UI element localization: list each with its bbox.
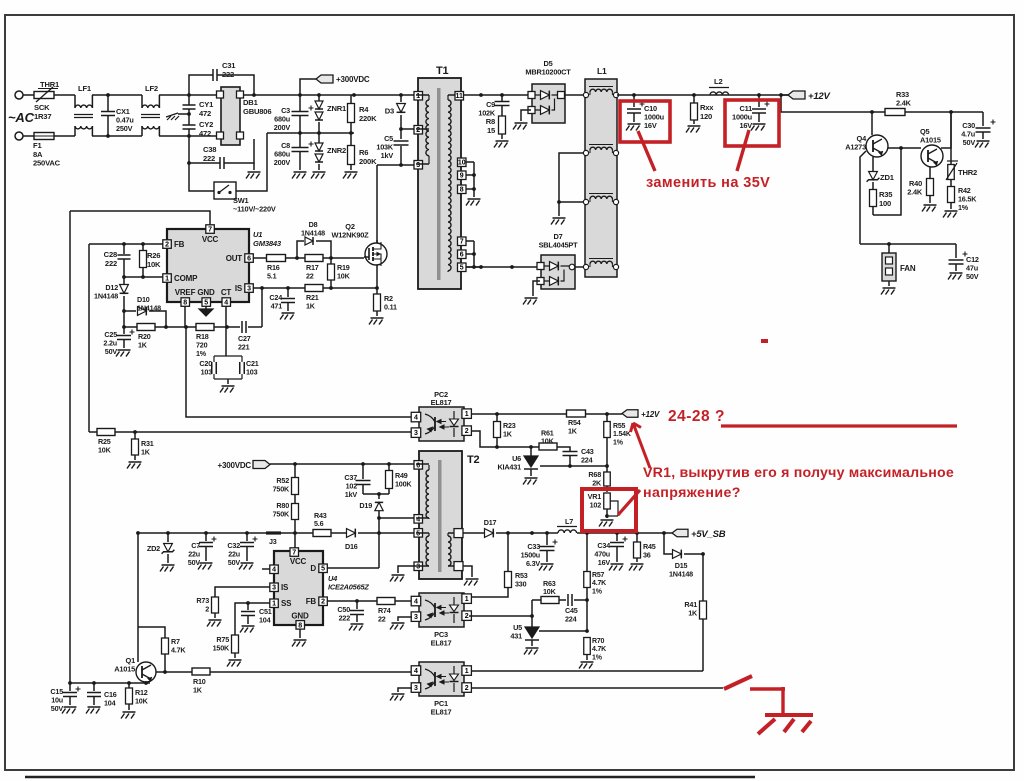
svg-text:1N4148: 1N4148 [137, 303, 161, 312]
svg-text:ZD2: ZD2 [147, 544, 160, 553]
red ground hatch [802, 721, 811, 732]
svg-text:24-28 ?: 24-28 ? [668, 408, 725, 425]
svg-text:16V: 16V [598, 558, 611, 567]
svg-text:1%: 1% [613, 439, 624, 446]
svg-text:4.7K: 4.7K [592, 580, 606, 587]
diode D15 1N4148 [664, 533, 705, 578]
wire [905, 110, 983, 114]
U1 pin 4 CT [221, 288, 232, 306]
wire [92, 134, 142, 138]
capacitor C34 470u 16V [594, 533, 627, 571]
svg-text:D: D [310, 564, 316, 573]
ground [343, 172, 358, 179]
svg-text:ZNR1: ZNR1 [327, 104, 347, 113]
wire [286, 256, 307, 260]
svg-text:1: 1 [165, 275, 169, 282]
ground [292, 172, 307, 179]
AC input terminal bottom [15, 132, 34, 140]
svg-text:3: 3 [247, 285, 251, 292]
svg-text:2: 2 [165, 241, 169, 248]
D drain wire [327, 567, 379, 569]
resistor R53 330 [469, 533, 528, 597]
diode D12 1N4148 [94, 277, 128, 327]
svg-text:5: 5 [204, 299, 208, 306]
L1 winding 4 [583, 259, 618, 270]
svg-text:THR2: THR2 [958, 168, 977, 177]
svg-text:1K: 1K [138, 340, 148, 349]
svg-text:2: 2 [205, 604, 209, 613]
capacitor C9 102K [478, 95, 509, 118]
svg-text:10K: 10K [135, 696, 149, 705]
svg-text:заменить на 35V: заменить на 35V [646, 175, 770, 191]
svg-text:SS: SS [281, 599, 292, 608]
red leader line [737, 130, 749, 171]
svg-text:200V: 200V [274, 158, 291, 167]
svg-text:103: 103 [201, 367, 213, 376]
svg-text:1%: 1% [592, 654, 603, 661]
svg-text:4: 4 [272, 567, 276, 574]
svg-text:8A: 8A [33, 150, 43, 159]
svg-text:7: 7 [460, 239, 464, 246]
svg-text:222: 222 [339, 613, 351, 622]
svg-text:1K: 1K [503, 429, 513, 438]
svg-text:1: 1 [465, 668, 469, 675]
svg-text:5.6: 5.6 [314, 519, 324, 528]
svg-text:EL817: EL817 [431, 398, 452, 407]
ground [686, 126, 701, 133]
ground [751, 124, 766, 131]
svg-text:R55: R55 [613, 423, 626, 430]
capacitor C32 22u 50V [227, 533, 257, 570]
wire [540, 464, 607, 468]
dual diode D7 SBL4045PT [537, 232, 578, 289]
varistor ZNR2 [315, 133, 346, 170]
wire [557, 447, 570, 451]
svg-text:~AC: ~AC [8, 110, 35, 125]
+12V flag [781, 91, 831, 102]
trimmer VR1 102 [588, 486, 618, 527]
svg-text:3: 3 [414, 614, 418, 621]
T2 secondary winding [448, 533, 451, 566]
resistor R68 2K [588, 470, 610, 487]
svg-text:10: 10 [458, 160, 466, 167]
U4 pin 2 FB [306, 597, 328, 606]
wire [217, 75, 256, 97]
svg-text:2: 2 [321, 599, 325, 606]
svg-text:L1: L1 [597, 66, 607, 76]
svg-text:R6: R6 [359, 148, 368, 157]
svg-text:4.7K: 4.7K [592, 646, 606, 653]
transistor Q1 A1015 [114, 656, 156, 682]
wire [471, 670, 703, 672]
svg-text:22: 22 [306, 271, 314, 280]
svg-text:1kV: 1kV [381, 151, 394, 160]
svg-text:напряжение?: напряжение? [643, 485, 741, 501]
wire [539, 629, 589, 633]
red box around C10 [620, 101, 670, 142]
svg-text:2.4K: 2.4K [907, 188, 923, 197]
svg-text:A1273: A1273 [845, 143, 866, 152]
diode D17 [463, 518, 558, 537]
svg-text:150K: 150K [213, 643, 230, 652]
svg-text:L7: L7 [565, 517, 573, 526]
svg-text:330: 330 [515, 579, 527, 588]
T2 pin3 ground [390, 566, 416, 582]
T1 pin 9 [458, 171, 475, 180]
svg-text:F1: F1 [33, 141, 42, 150]
wire [377, 163, 416, 167]
T2 pin 3 [414, 562, 429, 571]
svg-text:7: 7 [208, 226, 212, 233]
transistor Q5 A1015 [920, 127, 943, 167]
svg-text:10K: 10K [541, 436, 555, 445]
svg-text:C38: C38 [203, 145, 216, 154]
resistor R40 2.4K [907, 179, 936, 212]
svg-text:T2: T2 [467, 454, 480, 466]
svg-text:1N4148: 1N4148 [94, 291, 118, 300]
svg-text:750K: 750K [273, 509, 290, 518]
capacitor C33 1500u 6.3V [521, 531, 558, 570]
svg-text:A1015: A1015 [920, 136, 941, 145]
svg-text:200V: 200V [274, 123, 291, 132]
ground [311, 172, 326, 179]
resistor R75 150K [213, 635, 242, 667]
svg-text:+12V: +12V [808, 91, 831, 102]
svg-text:0.11: 0.11 [384, 302, 397, 311]
VCC rail of U4 [138, 531, 266, 535]
svg-text:SCK: SCK [34, 103, 50, 112]
svg-text:1: 1 [272, 601, 276, 608]
red ground hatch [784, 719, 794, 732]
U4 pin 5 D [310, 564, 327, 573]
FB wire [327, 599, 377, 603]
wire [565, 94, 585, 96]
svg-text:2: 2 [465, 613, 469, 620]
jumper J3 [266, 533, 281, 546]
svg-text:5: 5 [321, 566, 325, 573]
svg-text:102: 102 [590, 500, 602, 509]
svg-text:471: 471 [271, 301, 283, 310]
resistor R8 15 [486, 106, 506, 139]
U4 pin 7 VCC [290, 548, 307, 566]
svg-text:22: 22 [378, 614, 386, 623]
svg-text:431: 431 [510, 632, 522, 641]
fuse F1 [33, 133, 61, 168]
T1 pin 5 [458, 263, 482, 272]
svg-text:750K: 750K [273, 484, 290, 493]
ground [246, 163, 261, 179]
IS wire [215, 587, 270, 597]
red note VR1 line2 [643, 485, 741, 501]
bottom scan line [25, 776, 755, 779]
svg-text:1kV: 1kV [345, 490, 358, 499]
svg-text:+12V: +12V [641, 410, 660, 419]
VREF wire [184, 306, 186, 327]
svg-text:50V: 50V [966, 272, 979, 281]
svg-text:2: 2 [416, 127, 420, 134]
wire [92, 93, 142, 97]
svg-text:1: 1 [465, 596, 469, 603]
diode D19 [359, 494, 383, 568]
svg-text:4.7K: 4.7K [171, 645, 186, 654]
ground [551, 218, 566, 225]
red note 24-28 [668, 408, 725, 425]
svg-text:250VAC: 250VAC [33, 159, 61, 168]
svg-text:OUT: OUT [226, 254, 243, 263]
+5V_SB flag [672, 529, 726, 540]
svg-text:6.3V: 6.3V [526, 559, 540, 568]
svg-text:SBL4045PT: SBL4045PT [539, 241, 579, 250]
svg-text:50V: 50V [963, 138, 976, 147]
~AC label [8, 110, 35, 125]
svg-text:DB1: DB1 [243, 98, 259, 107]
svg-text:LF1: LF1 [78, 84, 92, 93]
resistor R31 1K [127, 432, 154, 469]
OUT wire [253, 257, 266, 259]
resistor R52 750K [273, 464, 299, 495]
MOSFET Q2 W12NK90Z [331, 222, 387, 266]
red box around VR1 [582, 489, 636, 531]
shunt regulator U6 KIA431 [497, 447, 538, 485]
+300VDC rail [244, 93, 416, 97]
resistor R35 100 [870, 190, 894, 216]
resistor R10 1K [192, 668, 210, 694]
red ground bar [765, 713, 813, 717]
resistor R21 1K [305, 285, 323, 311]
wire [159, 93, 217, 97]
capacitor C28 222 [104, 244, 131, 277]
svg-text:103: 103 [246, 367, 258, 376]
capacitor C5 103K 1kV [376, 129, 408, 165]
svg-text:1K: 1K [568, 426, 578, 435]
svg-text:FB: FB [306, 597, 317, 606]
svg-text:1N4148: 1N4148 [669, 569, 693, 578]
wire [270, 462, 415, 466]
resistor R55 1.54K 1% [604, 414, 631, 472]
svg-text:D17: D17 [484, 518, 497, 527]
svg-text:2K: 2K [592, 478, 602, 487]
svg-text:250V: 250V [116, 124, 133, 133]
capacitor C45 224 [565, 594, 587, 623]
svg-text:D19: D19 [359, 501, 372, 510]
svg-text:R70: R70 [592, 638, 605, 645]
diode D10 1N4148 [124, 295, 166, 327]
wire [189, 75, 213, 95]
svg-text:220K: 220K [359, 114, 377, 123]
T1 pin 11 [448, 92, 464, 101]
resistor R63 10K [532, 579, 566, 604]
wire [323, 286, 377, 290]
svg-text:10K: 10K [337, 271, 351, 280]
U4 pin 3 IS [270, 583, 289, 592]
svg-text:+300VDC: +300VDC [336, 75, 370, 84]
red ground hatch [758, 719, 775, 734]
COMP wire [122, 275, 163, 279]
wire [469, 615, 532, 617]
capacitor C37 102 1kV [344, 464, 370, 499]
gate wire [323, 256, 364, 260]
capacitor C38 [189, 145, 224, 169]
IS rail [253, 286, 305, 290]
T2 pin 4 [414, 515, 429, 524]
SS wire [235, 601, 270, 635]
svg-text:5.1: 5.1 [267, 271, 277, 280]
resistor R49 100K [386, 464, 413, 494]
wire [379, 517, 415, 519]
transformer T2 [419, 451, 480, 579]
FB rail [89, 242, 163, 246]
T1 secondary winding [448, 95, 451, 272]
wire [929, 167, 931, 178]
wire [472, 162, 476, 197]
svg-text:4: 4 [414, 598, 418, 605]
red wire [750, 687, 785, 690]
wire [89, 431, 97, 433]
svg-text:15: 15 [487, 126, 496, 135]
svg-text:472: 472 [199, 129, 211, 138]
svg-text:GBU806: GBU806 [243, 107, 271, 116]
resistor R80 750K [273, 495, 299, 549]
svg-text:1K: 1K [688, 608, 698, 617]
svg-text:GND: GND [291, 612, 309, 621]
svg-text:1%: 1% [958, 203, 969, 212]
wire [888, 146, 921, 150]
zener ZD2 [147, 533, 175, 572]
thermistor THR2 [946, 161, 977, 180]
svg-text:8: 8 [298, 622, 302, 629]
svg-text:C28: C28 [104, 250, 117, 259]
capacitor CY1 [183, 95, 215, 118]
wire [136, 531, 140, 662]
T2 right pin bottom [448, 562, 463, 571]
wire [376, 165, 378, 243]
capacitor C30 4.7u 50V [961, 112, 995, 148]
optocoupler PC2 EL817 [411, 390, 471, 441]
svg-text:50V: 50V [228, 558, 241, 567]
svg-text:224: 224 [581, 455, 593, 464]
svg-text:IS: IS [281, 583, 289, 592]
svg-text:8: 8 [183, 299, 187, 306]
svg-text:120: 120 [700, 112, 712, 121]
resistor R43 5.6 [313, 511, 331, 537]
svg-text:VCC: VCC [202, 235, 219, 244]
PC1 pin3 ground [390, 688, 412, 701]
svg-text:10K: 10K [98, 445, 112, 454]
svg-text:D3: D3 [385, 107, 394, 116]
U1 pin 8 VREF [175, 288, 196, 306]
T1 pin 6 [458, 250, 475, 259]
wire [281, 531, 313, 535]
svg-text:U1: U1 [253, 230, 262, 239]
svg-text:ZNR2: ZNR2 [327, 146, 346, 155]
U4 pin 1 SS [270, 599, 292, 608]
resistor R45 36 [629, 533, 656, 571]
red box around C11 [725, 100, 779, 146]
D7 ground [523, 281, 540, 305]
svg-text:D16: D16 [345, 542, 358, 551]
svg-text:EL817: EL817 [431, 639, 452, 648]
svg-text:2: 2 [465, 685, 469, 692]
U4 pin 8 GND [291, 612, 309, 647]
svg-text:IS: IS [235, 284, 243, 293]
capacitor CY2 [183, 109, 214, 138]
wire [395, 600, 411, 602]
svg-text:11: 11 [456, 93, 464, 100]
svg-text:6: 6 [247, 255, 251, 262]
svg-text:Rxx: Rxx [700, 103, 714, 112]
svg-text:222: 222 [105, 259, 117, 268]
svg-text:1: 1 [465, 411, 469, 418]
svg-text:THR1: THR1 [40, 80, 60, 89]
wire [363, 492, 389, 496]
svg-text:222: 222 [203, 154, 215, 163]
svg-text:1: 1 [416, 93, 420, 100]
wire [261, 288, 263, 327]
zener ZD1 [867, 157, 895, 189]
red leader line [638, 131, 655, 171]
wire [873, 148, 901, 215]
transistor Q4 A1273 [845, 112, 888, 157]
svg-text:104: 104 [104, 698, 116, 707]
wire [889, 243, 956, 245]
svg-text:R35: R35 [879, 190, 893, 199]
resistor R2 0.11 [369, 288, 397, 325]
svg-text:1R37: 1R37 [34, 112, 51, 121]
svg-text:3: 3 [414, 685, 418, 692]
svg-text:1.54K: 1.54K [613, 431, 631, 438]
resistor R18 720 1% [196, 324, 214, 358]
+300VDC flag [300, 75, 370, 95]
wire [471, 687, 723, 689]
T1 pin 3 [414, 161, 429, 170]
U1 pin 2 FB [163, 240, 185, 249]
AC input terminal top [15, 91, 34, 99]
capacitor C15 10u 50V [50, 683, 80, 714]
svg-text:ZD1: ZD1 [880, 173, 895, 182]
svg-text:1K: 1K [306, 301, 316, 310]
svg-text:EL817: EL817 [431, 708, 452, 717]
capacitor C27 221 [238, 321, 262, 351]
thermistor THR1 [34, 80, 60, 121]
wire [399, 127, 416, 131]
svg-text:2: 2 [465, 428, 469, 435]
resistor R7 4.7K [138, 627, 186, 672]
varistor ZNR1 [315, 95, 347, 133]
svg-text:A1015: A1015 [114, 665, 135, 674]
svg-text:GND: GND [197, 288, 215, 297]
resistor R6 200K [348, 133, 378, 170]
svg-text:1%: 1% [196, 349, 207, 358]
svg-text:R26: R26 [147, 251, 160, 260]
T1 pin 7 [458, 237, 475, 246]
resistor R41 1K [684, 554, 706, 671]
chassis ground [166, 113, 189, 120]
resistor R20 1K [137, 324, 155, 350]
svg-text:L2: L2 [714, 77, 722, 86]
resistor R61 10K [539, 429, 557, 451]
red arrow to R55 [631, 423, 651, 468]
capacitor C8 680u 200V [274, 133, 314, 170]
T1 pin 10 [458, 158, 475, 167]
svg-text:4: 4 [224, 299, 228, 306]
resistor R54 1K [567, 410, 586, 435]
capacitor CX1 [101, 95, 134, 136]
shunt regulator U5 431 [510, 600, 539, 655]
capacitor C50 222 [337, 601, 364, 631]
red dash [761, 339, 768, 343]
svg-text:3: 3 [272, 585, 276, 592]
U4 pin 4 [262, 565, 278, 574]
